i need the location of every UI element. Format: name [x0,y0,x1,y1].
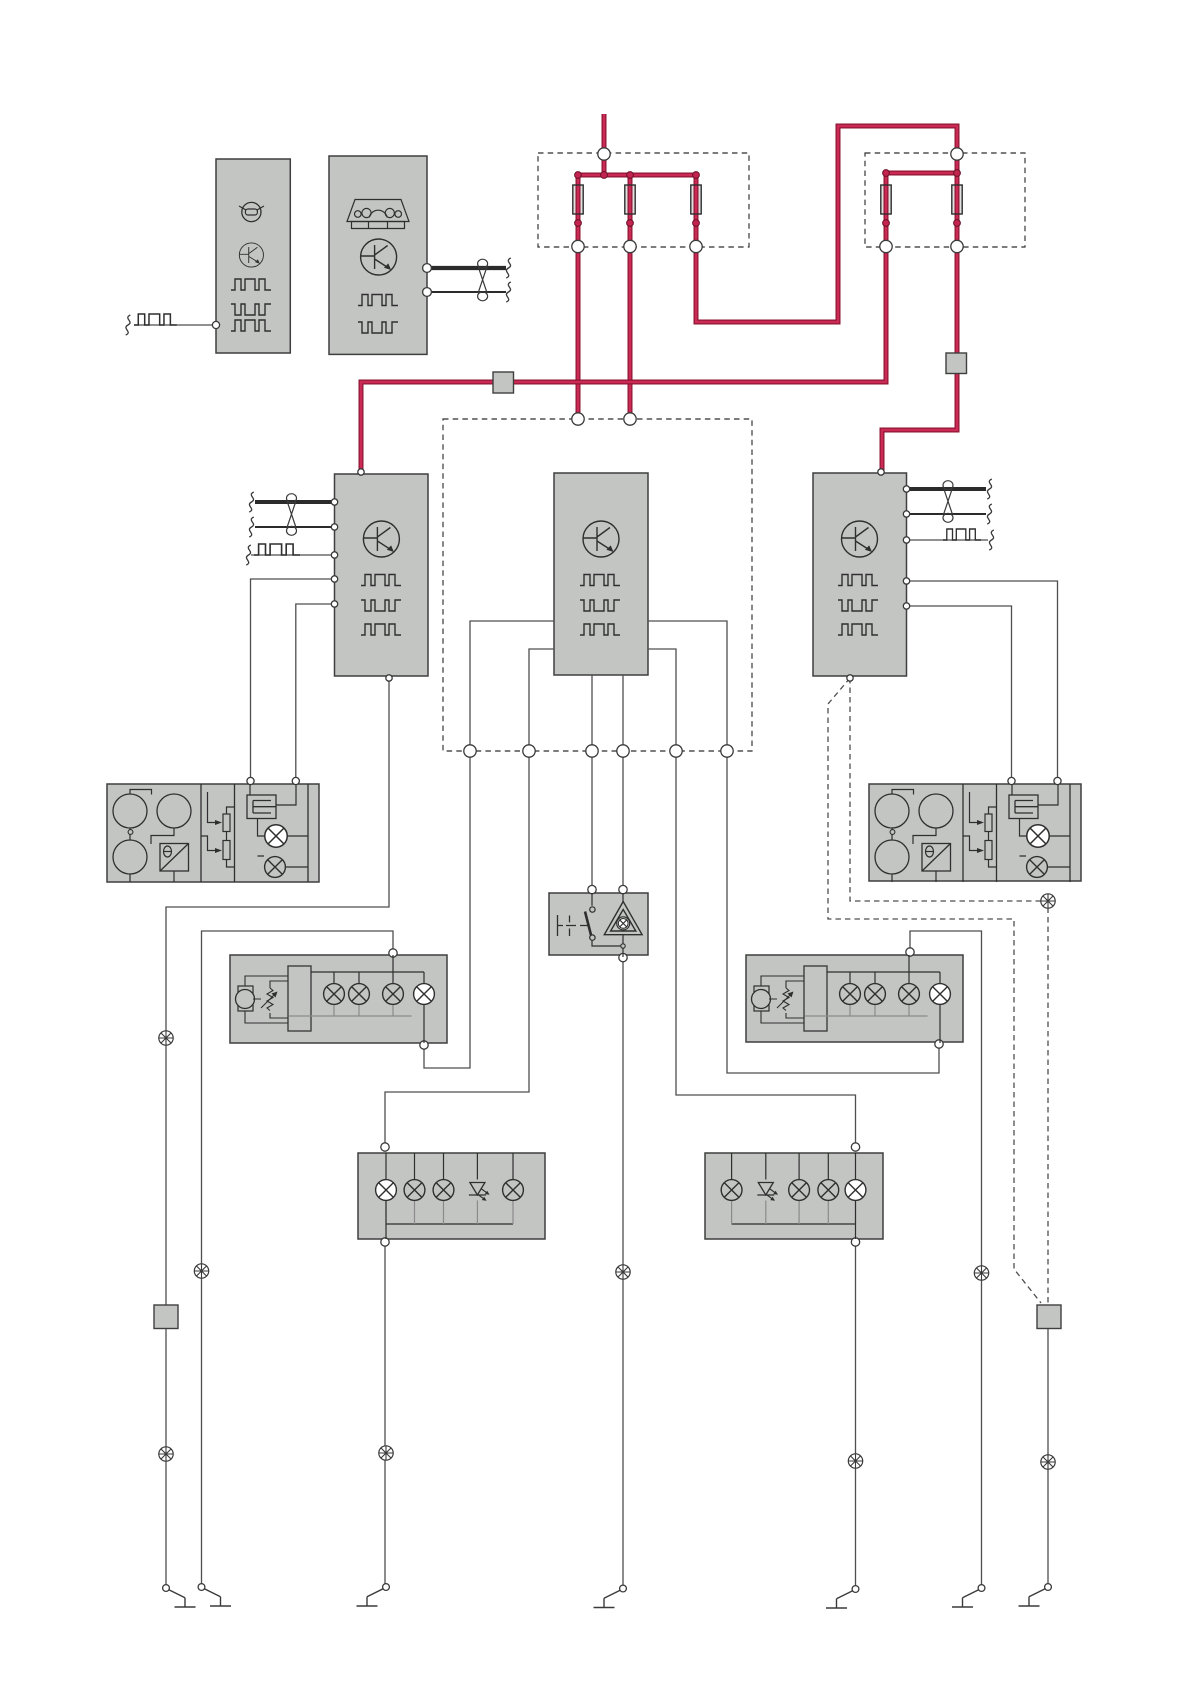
icon: module B waveform 2 [358,322,398,333]
hazard switch: mechanical coupling glyph [558,915,588,936]
terminal: CEM feed 2 [624,413,636,425]
wire: U2 right pin to CEM pin6 [648,621,727,751]
junction dot [954,170,961,177]
module U1 (left lamp control module) [335,474,429,676]
break mark: U1 pair high [249,492,254,512]
wire: U1 pin4 to left headlamp [251,579,335,781]
right headlamp: heater feed [1012,784,1070,867]
left headlamp: levelling motor 2 [157,794,191,828]
terminal: left switch unit top [389,949,397,957]
port: U3 pin [903,486,909,492]
port: U3 pin [903,511,909,517]
module A (sensor unit) [216,159,290,353]
wire: module A input signal [134,324,216,326]
left headlamp: low beam bulb [265,857,286,878]
port: module B pair high [423,264,432,273]
junction dot [883,220,890,227]
left switch unit: lamp feed bus [311,972,424,984]
wire: fuse F4 to left module U1 feed [361,173,886,474]
left lamp cluster: series lamp column [385,1201,387,1240]
wire: U2 bottom pin to CEM pin4 [622,675,624,751]
dashed wire: U3 ground lead a [850,678,1048,1305]
ground G6 [952,1585,985,1607]
icon: module A waveform 2 [231,304,271,315]
wire: U2 left pin to CEM pin2 [529,649,554,751]
terminal: CEM pin3 [586,745,598,757]
splice S1 [159,1031,173,1045]
left rear lamp cluster [358,1153,545,1239]
left lamp cluster: lamp return bus [386,1223,513,1225]
inline connector C3 [154,1305,178,1329]
right lamp cluster: lamp return stubs [732,1201,856,1225]
junction dot [601,172,608,179]
wire: U3 pwm signal [907,539,989,541]
wire: rear fuse box bus [886,171,957,176]
icon: U2 waveform 3 [580,624,620,635]
terminal: hazard switch out [619,953,627,961]
wire: fuse box feed bus [578,173,696,178]
inline connector C4 [1037,1305,1061,1329]
left lamp cluster: LED indicator [469,1183,490,1201]
break mark: U3 pair low [987,504,992,524]
junction dot [954,220,961,227]
right headlamp: variable resistor 1 [985,814,992,832]
terminal: hazard switch in2 [619,885,627,893]
wire: U2 right pin to CEM pin5 [648,649,676,751]
right headlamp: heater element [1009,795,1038,819]
hazard switch: contact top [590,907,595,912]
right switch unit: flasher relay block [804,966,827,1031]
icon: module A transistor [239,243,263,267]
wire: right lamp cluster ground lead [855,1242,857,1589]
port: U1 pin [331,576,337,582]
right headlamp: low beam bulb [1027,857,1048,878]
icon: module A waveform 1 [231,279,271,290]
left switch unit: internal link wires [245,976,288,1023]
left headlamp: resistor arrow 2 [215,848,222,853]
terminal: fuse F2 out [624,240,636,252]
twisted pair mark: U3 [943,481,953,523]
fuse F3 body [691,185,701,214]
right headlamp: resistor arrow 2 [977,848,984,853]
module U3 (right lamp control module) [813,473,907,676]
wire: fuse F5 to right module U3 feed [882,173,957,474]
right switch unit: indicator bulb 1 [840,984,861,1005]
terminal: CEM pin2 [523,745,535,757]
terminal: left lamp cluster top [381,1143,389,1151]
left switch unit: variable resistor zigzag [267,988,273,1011]
left switch unit: lever motor [236,990,255,1009]
fuse F4 body [881,185,891,214]
junction dot [575,172,582,179]
terminal: CEM pin5 [670,745,682,757]
ground G7 [1019,1584,1052,1606]
splice S8 [848,1454,862,1468]
left switch unit: indicator lamp column [392,955,394,984]
dashed wire: U3 ground lead b [828,678,1041,1303]
wire: CEM pin5 to right lamp cluster [676,751,856,1147]
port: U3 supply [878,469,884,475]
wire: U3 twisted pair high [907,487,987,491]
hazard switch: triangle bulb [617,917,630,930]
left switch unit: lamp return bus [289,1004,412,1016]
terminal: CEM pin1 [464,745,476,757]
port: U3 pin [903,537,909,543]
icon: module B transistor [361,239,397,275]
left headlamp: internal partitions [201,784,308,882]
left headlamp: levelling motor 1 [113,794,147,828]
wire: connector C4 to ground [1047,1328,1049,1587]
right headlamp: link junction [890,830,895,835]
fuse F5 outline [952,185,962,214]
junction dot [883,170,890,177]
wire: module B twisted pair low [427,291,506,293]
icon: U2 waveform 2 [580,600,620,611]
icon: U1 transistor [363,521,399,557]
wire: CEM pin1 to left switch unit [424,751,470,1068]
ground G3 [357,1584,390,1606]
junction dot [627,220,634,227]
left headlamp: theta glyph [164,846,172,857]
terminal: fuse box feed [598,148,610,160]
left switch unit: indicator bulb 2 [349,984,370,1005]
left switch unit: resistor wiper arrow [261,993,276,1008]
hazard switch: switch blade [585,912,592,938]
left lamp cluster: bulb [503,1180,524,1201]
twisted pair mark: module B [478,259,488,301]
ground G1 [163,1585,196,1607]
terminal: right lamp cluster bottom [851,1238,859,1246]
terminal: CEM pin6 [721,745,733,757]
right headlamp: levelling motor 2 [919,794,953,828]
left switch unit: panel bulb [414,984,435,1005]
right headlamp: internal partitions [963,784,1070,882]
left lamp cluster: lamp feed columns [386,1153,513,1180]
left headlamp: resistor arrow 1 [215,820,222,825]
icon: U3 waveform 1 [838,575,878,586]
right switch unit: indicator lamp column [908,955,910,984]
icon: U3 transistor [842,521,878,557]
wire: left switch unit ground lead [202,931,394,1587]
hazard switch: warning triangle [604,902,642,935]
left headlamp: resistor feed wires [201,792,235,867]
port: U3 pin [903,578,909,584]
wire: U3 pin4 to right headlamp [907,581,1058,781]
fuse F5 body [952,185,962,214]
wire: U1 pin5 to left headlamp [296,604,335,781]
terminal: CEM feed 1 [572,413,584,425]
module U2 (central control module) [554,473,648,675]
left headlamp: heater element [247,795,276,819]
icon: module A sensor symbol [239,202,264,221]
terminal: left headlamp 1 [247,777,254,784]
junction dot [575,220,582,227]
right switch unit: panel lamp drop [939,1004,941,1043]
right switch unit: lever motor bracket [754,986,769,1011]
right switch unit: lever motor [752,990,771,1009]
wire: U2 bottom pin to CEM pin3 [591,675,593,751]
terminal: left lamp cluster bottom [381,1238,389,1246]
right headlamp: temperature sensor box [922,844,951,872]
signal waveform: U3 pwm [943,529,981,540]
icon: module B waveform 1 [358,295,398,306]
ground G2 [198,1584,231,1606]
terminal: fuse F4 out [880,240,892,252]
right headlamp: levelling motor 1 [875,794,909,828]
right switch unit: lamp feed bus [827,972,940,984]
port: U1 pin [331,524,337,530]
left switch unit: lever motor bracket [238,986,253,1011]
splice S2 [194,1264,208,1278]
terminal: fuse F3 out [690,240,702,252]
left lamp cluster: lamp return stubs [386,1201,513,1225]
terminal: right switch unit bottom [935,1040,943,1048]
terminal: right lamp cluster top [851,1143,859,1151]
right lamp cluster: white bulb [845,1180,866,1201]
left headlamp: motor link wires [130,790,174,883]
right headlamp: resistor arrow 1 [977,820,984,825]
splice S4 [974,1266,988,1280]
terminal: left switch unit bottom [420,1041,428,1049]
port: U1 pin [331,499,337,505]
port: module A input [212,321,219,328]
junction dot [627,172,634,179]
right lamp cluster: series lamp column [855,1201,857,1240]
hazard switch: contact bottom [590,935,595,940]
port: U3 ground [847,675,853,681]
left headlamp: link junction [128,830,133,835]
port: U1 ground [386,675,392,681]
wire: U3 pin5 to right headlamp [907,606,1012,781]
right lamp cluster: bulb [721,1180,742,1201]
right headlamp unit [869,784,1081,881]
left headlamp: temperature sensor box [160,844,189,872]
break mark: U3 pair high [987,479,992,499]
port: U1 supply [358,469,364,475]
right headlamp: motor link wires [892,790,936,883]
left headlamp: levelling motor 3 [113,840,147,874]
left headlamp unit [107,784,319,882]
connector box: engine fuse box [538,153,749,247]
fuse F1 outline [573,185,583,214]
port: U1 pin [331,601,337,607]
connector box: central electronic module [443,419,752,751]
port: U3 pin [903,603,909,609]
fuse F2 body [625,185,635,214]
break mark: module B pair low [506,282,511,302]
wire: hazard switch ground lead [622,958,624,1588]
splice S9 [1041,1455,1055,1469]
right lamp cluster: lamp return bus [732,1223,856,1225]
break mark: module A wire [126,315,131,335]
inline connector C1 [493,372,514,393]
left switch unit: indicator bulb 1 [324,984,345,1005]
right lamp cluster: lamp feed columns [732,1153,856,1180]
right headlamp: high beam bulb [1027,825,1049,847]
right switch unit: panel bulb [930,984,951,1005]
left switch unit: panel lamp drop [423,1004,425,1043]
terminal: fuse F5 out [951,240,963,252]
left lamp cluster: bulb [433,1180,454,1201]
wire: CEM pin2 to left lamp cluster [385,751,529,1147]
signal waveform: module A input [134,314,177,325]
right switch unit: variable resistor zigzag [783,988,789,1011]
terminal: fuse F1 out [572,240,584,252]
left headlamp: heater feed [250,784,308,867]
break mark: U3 pwm [989,530,994,550]
right lamp cluster: bulb [789,1180,810,1201]
ground G4 [594,1585,627,1607]
terminal: left headlamp 2 [292,777,299,784]
icon: U3 waveform 2 [838,600,878,611]
fuse F2 outline [625,185,635,214]
port: U1 pin [331,552,337,558]
icon: U1 waveform 3 [361,624,401,635]
wire: U2 left pin to CEM pin1 [470,621,554,751]
wire: fuse F1 to central module connector [576,175,581,419]
fuse F4 outline [881,185,891,214]
fuse F1 body [573,185,583,214]
left switch unit: flasher relay block [288,966,311,1031]
wire: module B twisted pair high [427,266,506,270]
break mark: U1 pwm [246,545,251,565]
right rear lamp cluster [705,1153,883,1239]
terminal: right headlamp 2 [1054,777,1061,784]
icon: U3 waveform 3 [838,624,878,635]
right switch unit: indicator bulb 3 [899,984,920,1005]
right switch unit: indicator bulb 2 [865,984,886,1005]
left turn-signal switch unit [230,955,447,1043]
wire: CEM pin6 to right switch unit [727,751,939,1073]
left headlamp: variable resistor 2 [223,841,230,860]
terminal: rear fuse box feed [951,148,963,160]
right headlamp: variable resistor 2 [985,841,992,860]
wire: fuse F2 to central module connector [628,175,633,419]
icon: U2 waveform 1 [580,575,620,586]
wire: CEM pin4 to hazard switch [622,751,624,890]
icon: U2 transistor [583,521,619,557]
icon: U1 waveform 2 [361,600,401,611]
right headlamp: resistor feed wires [963,792,997,867]
terminal: CEM pin4 [617,745,629,757]
wire: U1 ground lead via connector [166,678,389,1588]
right lamp cluster: LED indicator [757,1183,778,1201]
inline connector C2 [946,353,967,374]
left lamp cluster: bulb [404,1180,425,1201]
wire: left lamp cluster ground lead [384,1242,386,1587]
left lamp cluster: white bulb [376,1180,397,1201]
wire: U3 twisted pair low [907,513,987,515]
icon: module B instrument cluster symbol [347,200,409,229]
ground G5 [826,1586,859,1608]
fuse F3 outline [691,185,701,214]
wire: right switch unit ground lead [910,931,982,1588]
terminal: hazard switch in1 [588,885,596,893]
hazard switch: junction [621,944,625,948]
port: module B pair low [423,288,432,297]
right switch unit: internal link wires [761,976,804,1023]
terminal: right switch unit top [906,948,914,956]
wire: battery feed into fuse box [602,114,607,175]
break mark: module B pair high [506,258,511,278]
right switch unit: lamp return bus [805,1004,928,1016]
icon: U1 waveform 1 [361,575,401,586]
twisted pair mark: U1 [287,494,297,536]
left headlamp: variable resistor 1 [223,814,230,832]
junction dot [693,220,700,227]
splice S6 [159,1447,173,1461]
module B (instrument cluster unit) [329,156,427,354]
left headlamp: high beam bulb [265,825,287,847]
right lamp cluster: bulb [818,1180,839,1201]
left switch unit: indicator bulb 3 [383,984,404,1005]
wire: U1 pwm signal [251,554,335,556]
wire: U1 twisted pair low [255,526,335,528]
junction dot [693,172,700,179]
signal waveform: U1 pwm [254,544,300,555]
hazard warning switch [549,893,648,955]
wire: CEM pin3 to hazard switch [591,751,593,890]
icon: module A waveform 3 [231,320,271,331]
connector box: rear fuse box [865,153,1025,247]
wire: fuse F3 to rear fuse box [696,126,957,322]
hazard switch: internal wires [592,893,623,957]
break mark: U1 pair low [249,517,254,537]
right turn-signal switch unit [746,955,963,1042]
terminal: right headlamp 1 [1008,777,1015,784]
splice S3 [616,1265,630,1279]
right headlamp: theta glyph [926,846,934,857]
splice S7 [379,1446,393,1460]
right headlamp: levelling motor 3 [875,840,909,874]
splice S5 [1041,894,1055,908]
wire: U1 twisted pair high [255,500,335,504]
right switch unit: resistor wiper arrow [777,993,792,1008]
